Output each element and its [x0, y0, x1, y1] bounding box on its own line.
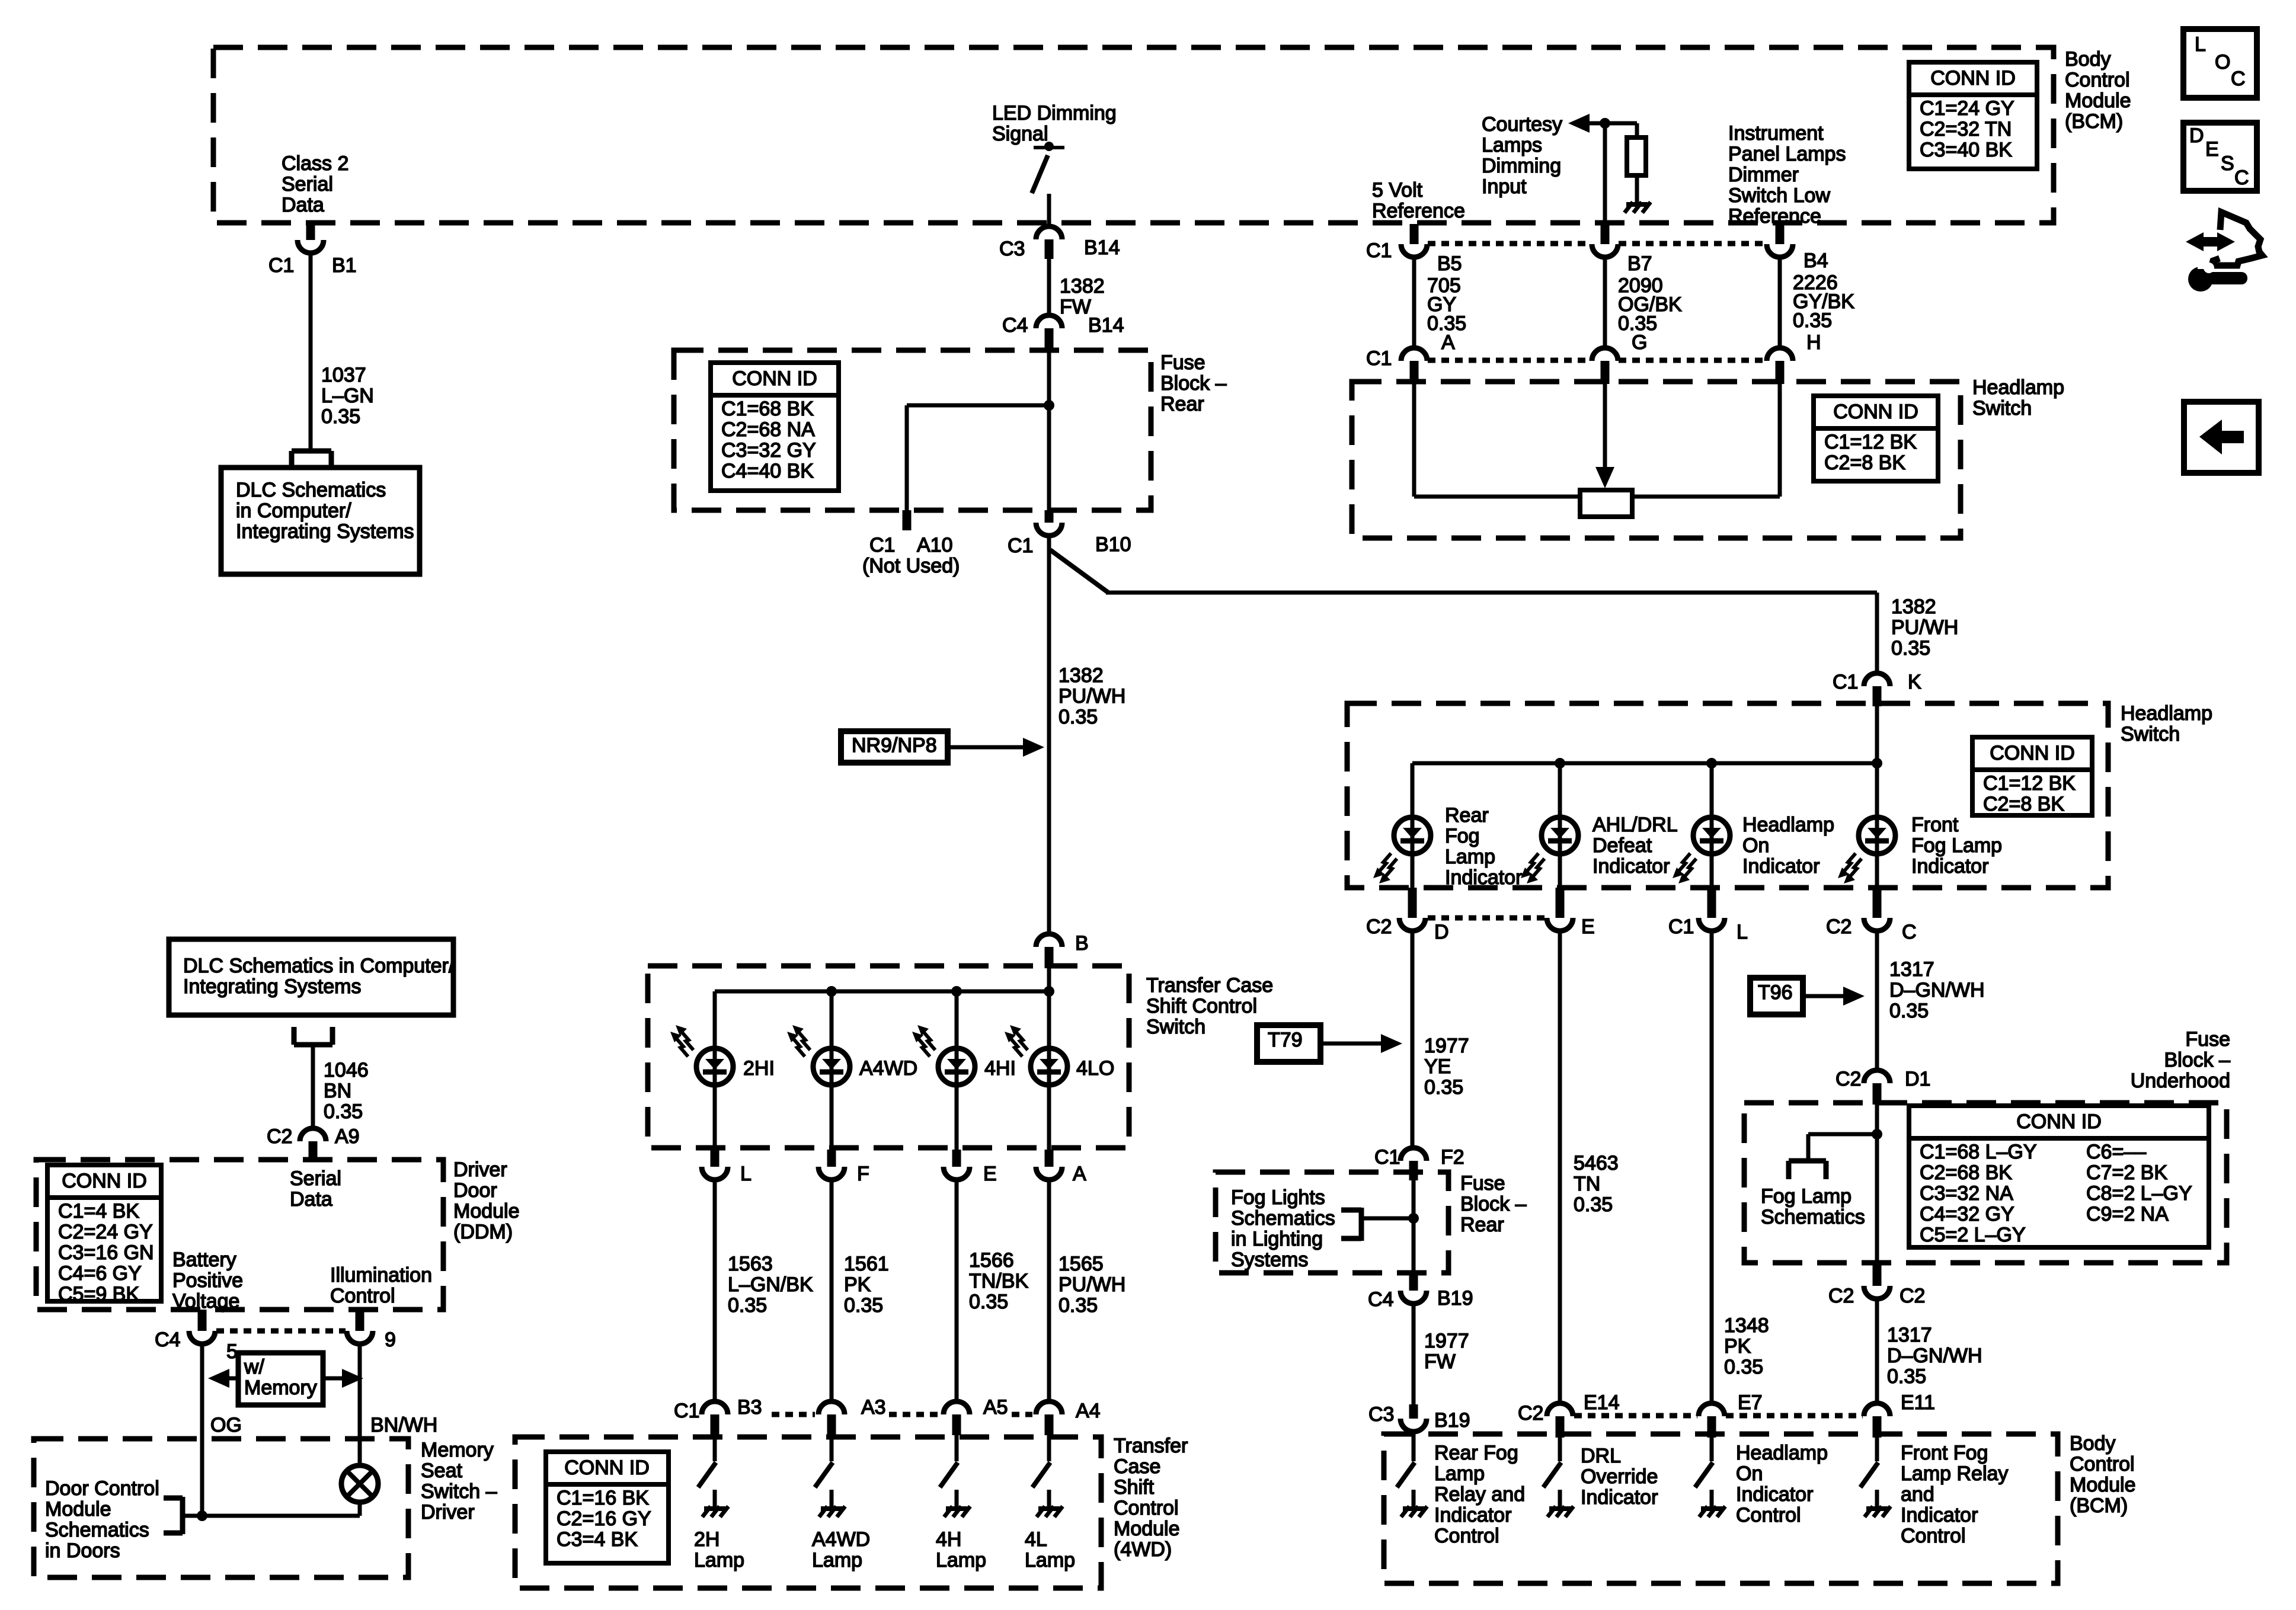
LED front fog lamp indicator [1859, 817, 1895, 854]
connector C1 pin B1 (BCM class 2 serial data) [306, 224, 315, 240]
svg-text:C1: C1 [1366, 239, 1392, 262]
connector C3 pin B19 (BCM) [1409, 1404, 1418, 1419]
connector pin A5 [944, 1401, 970, 1414]
svg-text:C2: C2 [1828, 1285, 1854, 1307]
svg-text:T79: T79 [1268, 1029, 1303, 1051]
svg-text:Input: Input [1482, 175, 1527, 198]
wire 1317 D-GN/WH lower [1875, 1300, 1879, 1403]
svg-text:C5=9 BK: C5=9 BK [58, 1283, 139, 1305]
DDM CONN ID table [47, 1165, 161, 1301]
svg-text:Lamp: Lamp [1445, 846, 1495, 868]
svg-text:Control: Control [1114, 1497, 1179, 1519]
arrow from T79 to wire [1320, 1042, 1384, 1046]
connector pin B7 (dimmer input) [1601, 224, 1610, 244]
inline connector dotted row (top) [1428, 241, 1591, 247]
arrow: courtesy lamps dimming input (points left) [1586, 121, 1637, 126]
svg-text:Control: Control [1434, 1525, 1499, 1547]
LED bus wire (transfer case) [715, 990, 1049, 994]
svg-text:Fog Lights: Fog Lights [1231, 1186, 1325, 1209]
svg-text:DLC Schematics in Computer/: DLC Schematics in Computer/ [183, 955, 455, 977]
connector pin H (headlamp switch) [1767, 348, 1793, 361]
Transfer Case Module CONN ID table [546, 1452, 669, 1563]
svg-text:B5: B5 [1437, 252, 1462, 275]
LED 4HI indicator [938, 1048, 975, 1085]
svg-text:PK: PK [844, 1273, 871, 1296]
svg-text:Dimmer: Dimmer [1728, 164, 1799, 186]
svg-text:B10: B10 [1095, 533, 1131, 556]
svg-text:1037: 1037 [321, 364, 366, 386]
takeout box T96 [1750, 978, 1803, 1014]
svg-text:NR9/NP8: NR9/NP8 [852, 734, 937, 757]
svg-text:Battery: Battery [172, 1249, 236, 1271]
svg-text:Indicator: Indicator [1581, 1486, 1658, 1509]
connector C2 pin E14 (BCM) [1547, 1403, 1573, 1416]
svg-text:Switch Low: Switch Low [1728, 184, 1830, 207]
svg-text:1348: 1348 [1724, 1314, 1769, 1337]
svg-text:A: A [1441, 331, 1455, 354]
svg-text:Switch: Switch [1146, 1016, 1205, 1038]
svg-text:C1=12 BK: C1=12 BK [1983, 772, 2076, 795]
connector C1 pin L [1707, 888, 1716, 918]
svg-text:0.35: 0.35 [1059, 1294, 1098, 1317]
svg-text:C2: C2 [1518, 1402, 1543, 1425]
arrow from NR9/NP8 to wire [948, 745, 1031, 750]
svg-text:A5: A5 [983, 1396, 1008, 1419]
svg-text:B: B [1075, 932, 1089, 955]
svg-text:1382: 1382 [1060, 275, 1105, 297]
svg-text:E7: E7 [1738, 1391, 1763, 1414]
w/ Memory option box [238, 1353, 323, 1405]
wire 1563 L-GN/BK 0.35 [713, 1180, 717, 1401]
svg-text:1382: 1382 [1059, 664, 1104, 687]
svg-text:w/: w/ [244, 1356, 265, 1378]
svg-text:Reference: Reference [1728, 205, 1821, 228]
svg-text:Driver: Driver [421, 1501, 475, 1523]
svg-text:CONN ID: CONN ID [1990, 742, 2075, 764]
svg-text:E14: E14 [1584, 1391, 1620, 1414]
bracket: door control module reference [180, 1497, 186, 1534]
svg-text:C4=32 GY: C4=32 GY [1920, 1203, 2014, 1225]
svg-text:C4: C4 [1002, 314, 1028, 337]
svg-text:TN: TN [1574, 1173, 1600, 1195]
LED headlamp on indicator [1693, 817, 1730, 854]
svg-text:(4WD): (4WD) [1114, 1538, 1172, 1561]
Headlamp Switch dashed outline box (lower) [1347, 703, 2108, 888]
svg-text:Control: Control [1736, 1504, 1801, 1526]
dotted row between pins D and E [1428, 916, 1547, 921]
svg-text:E11: E11 [1901, 1391, 1935, 1414]
wire: headlamp on 1348 PK full drop [1710, 932, 1714, 1403]
bracket: DLC schematics reference (top) [292, 449, 331, 454]
svg-text:Defeat: Defeat [1593, 834, 1652, 857]
svg-text:A4: A4 [1076, 1400, 1101, 1422]
svg-text:Block –: Block – [1460, 1193, 1527, 1215]
connector C1 pin B5 (5V ref, BCM exit) [1410, 224, 1419, 244]
wire 705 GY 0.35 [1412, 257, 1416, 348]
svg-text:DLC Schematics: DLC Schematics [236, 479, 386, 501]
svg-text:Signal: Signal [992, 123, 1048, 145]
junction node OG/door control [197, 1510, 207, 1521]
junction node to fog lights schematics [1408, 1213, 1419, 1224]
LED 2HI indicator [696, 1048, 733, 1085]
svg-text:C: C [2231, 68, 2246, 90]
svg-text:C4: C4 [1368, 1288, 1393, 1311]
LED 4LO indicator [1031, 1048, 1067, 1085]
svg-text:Indicator: Indicator [1742, 855, 1819, 878]
svg-text:0.35: 0.35 [844, 1294, 883, 1317]
svg-text:C: C [1902, 921, 1917, 943]
svg-text:Case: Case [1114, 1455, 1160, 1478]
svg-text:C2: C2 [1900, 1285, 1925, 1307]
wire: indicator drop x=2632 [1558, 763, 1562, 889]
icon: back arrow box [2184, 402, 2259, 473]
connector pin 9 (DDM bottom) [356, 1310, 364, 1331]
svg-text:E: E [2205, 138, 2219, 161]
svg-text:C3=32 GY: C3=32 GY [721, 439, 816, 462]
svg-text:C2=8 BK: C2=8 BK [1983, 793, 2064, 815]
svg-text:Indicator: Indicator [1911, 855, 1988, 878]
svg-text:in Computer/: in Computer/ [236, 500, 351, 522]
svg-text:Module: Module [1114, 1518, 1180, 1540]
svg-text:C9=2 NA: C9=2 NA [2086, 1203, 2169, 1225]
svg-text:(BCM): (BCM) [2070, 1494, 2128, 1517]
svg-text:K: K [1908, 671, 1921, 693]
svg-text:Module: Module [2065, 89, 2131, 112]
Fuse Block - Rear dashed outline box [674, 350, 1151, 510]
dotted row between pins 5 and 9 [216, 1329, 346, 1334]
svg-text:Shift: Shift [1114, 1476, 1155, 1499]
svg-text:Switch: Switch [2121, 723, 2180, 745]
svg-text:4HI: 4HI [984, 1057, 1016, 1080]
svg-text:Lamp Relay: Lamp Relay [1901, 1462, 2008, 1485]
connector pin E7 (BCM) [1699, 1403, 1725, 1416]
connector pin B (transfer case shift control switch) [1036, 934, 1062, 947]
svg-text:Lamp: Lamp [936, 1549, 986, 1571]
dotted row between pins E14/E7/E11 [1574, 1413, 1697, 1419]
svg-text:A10: A10 [917, 534, 953, 556]
svg-text:C1=24 GY: C1=24 GY [1920, 97, 2014, 120]
svg-text:Module: Module [45, 1498, 111, 1521]
svg-text:0.35: 0.35 [969, 1291, 1008, 1313]
svg-text:L–GN/BK: L–GN/BK [728, 1273, 813, 1296]
connector pin A3 [818, 1401, 845, 1414]
svg-text:Block –: Block – [2164, 1049, 2231, 1071]
svg-text:Serial: Serial [290, 1167, 341, 1190]
svg-text:in Doors: in Doors [45, 1539, 120, 1562]
BCM CONN ID table [1909, 62, 2037, 169]
wire 1566 TN/BK 0.35 [955, 1180, 959, 1401]
svg-text:BN: BN [324, 1080, 351, 1102]
svg-text:Systems: Systems [1231, 1249, 1308, 1271]
LED A4WD indicator [813, 1048, 850, 1085]
svg-text:Control: Control [1901, 1525, 1966, 1547]
svg-text:in Lighting: in Lighting [1231, 1228, 1323, 1250]
wire: branch to fog lamp schematics bracket [1808, 1132, 1877, 1137]
svg-text:AHL/DRL: AHL/DRL [1593, 814, 1678, 836]
Memory Seat Switch dashed outline box [34, 1439, 408, 1577]
svg-text:A: A [1073, 1163, 1086, 1185]
svg-text:Integrating Systems: Integrating Systems [236, 520, 414, 543]
svg-text:Switch: Switch [1972, 397, 2032, 420]
wire: K down to indicator bus [1875, 706, 1879, 763]
svg-text:Fog Lamp: Fog Lamp [1911, 834, 2002, 857]
svg-text:Indicator: Indicator [1593, 855, 1670, 878]
wire 1565 PU/WH 0.35 [1047, 1180, 1051, 1401]
svg-text:Schematics: Schematics [1761, 1206, 1865, 1228]
ground: headlamp on indicator control [1710, 1490, 1714, 1506]
svg-text:Integrating Systems: Integrating Systems [183, 975, 361, 998]
svg-text:FW: FW [1060, 296, 1091, 318]
svg-text:A9: A9 [335, 1125, 360, 1148]
svg-text:C4=40 BK: C4=40 BK [721, 460, 814, 482]
switch: A4WD lamp driver [830, 1435, 834, 1461]
svg-text:1566: 1566 [969, 1249, 1014, 1272]
bracket: fog lights schematics reference [1359, 1208, 1364, 1241]
svg-text:Data: Data [282, 194, 324, 216]
svg-text:1977: 1977 [1424, 1330, 1469, 1352]
connector pin B4 (low reference) [1776, 224, 1785, 244]
svg-text:1977: 1977 [1424, 1035, 1469, 1057]
svg-text:CONN ID: CONN ID [1833, 401, 1918, 423]
svg-text:TN/BK: TN/BK [969, 1270, 1028, 1292]
svg-text:Lamp: Lamp [812, 1549, 862, 1571]
wire: inside fuse block, vertical main [1047, 352, 1051, 510]
svg-text:H: H [1806, 331, 1821, 354]
svg-text:Transfer Case: Transfer Case [1146, 974, 1273, 997]
svg-text:0.35: 0.35 [1059, 706, 1098, 728]
wire: through fuse block underhood [1875, 1105, 1879, 1263]
svg-text:Panel Lamps: Panel Lamps [1728, 143, 1846, 165]
svg-text:C1=12 BK: C1=12 BK [1824, 431, 1917, 453]
svg-text:C2: C2 [267, 1125, 292, 1148]
svg-text:B3: B3 [737, 1396, 762, 1419]
svg-text:LED Dimming: LED Dimming [992, 102, 1117, 124]
svg-text:Lamps: Lamps [1482, 134, 1542, 156]
Fuse Block Rear CONN ID table [711, 363, 839, 491]
connector C4 pin B14 (Fuse Block Rear top) [1036, 315, 1062, 328]
svg-text:C1=68 L–GY: C1=68 L–GY [1920, 1141, 2037, 1163]
svg-text:L: L [2195, 33, 2206, 56]
switch SW1 LED dimming signal (inside BCM) [1044, 142, 1054, 151]
svg-text:C3: C3 [1368, 1403, 1394, 1426]
icon: pointing hand with double arrow and wrench [2195, 237, 2226, 247]
svg-text:C1: C1 [1374, 1146, 1400, 1169]
svg-text:Lamp: Lamp [694, 1549, 744, 1571]
wire: indicator drop x=3167 [1875, 763, 1879, 889]
svg-text:C2=68 BK: C2=68 BK [1920, 1161, 2012, 1184]
svg-text:PK: PK [1724, 1335, 1751, 1358]
svg-text:Schematics: Schematics [45, 1519, 149, 1541]
svg-text:Fog Lamp: Fog Lamp [1761, 1185, 1851, 1208]
connector pin A [1045, 1150, 1054, 1167]
svg-text:C3=4 BK: C3=4 BK [557, 1528, 638, 1551]
dotted row between pins B3/A3/A5/A4 [772, 1412, 815, 1417]
wire: branch drop to C1 K [1875, 593, 1879, 673]
svg-text:T96: T96 [1758, 981, 1793, 1004]
svg-text:Rear Fog: Rear Fog [1434, 1442, 1518, 1464]
arrow from T96 to wire [1803, 994, 1846, 998]
svg-text:4H: 4H [936, 1528, 961, 1551]
Fuse Block Underhood CONN ID table [1909, 1106, 2209, 1247]
svg-text:Control: Control [2070, 1453, 2135, 1475]
lamp: memory seat switch illumination [341, 1465, 378, 1502]
wire: rear fog indicator control 1977 YE [1411, 932, 1415, 1147]
svg-text:Rear: Rear [1160, 393, 1204, 415]
svg-text:E: E [1581, 916, 1595, 938]
bracket: DLC schematics reference (bottom) [294, 1042, 332, 1048]
svg-text:Override: Override [1581, 1465, 1658, 1488]
wire: low ref to potentiometer [1778, 384, 1782, 497]
svg-text:4L: 4L [1025, 1528, 1047, 1551]
svg-text:C: C [2234, 167, 2249, 189]
svg-text:C1: C1 [268, 254, 294, 277]
ground: 2H lamp driver [713, 1490, 717, 1506]
wire: diagonal branch from B10 to headlamp switch [1050, 550, 1108, 593]
svg-text:Rear: Rear [1445, 804, 1489, 827]
wire: LED drop x=1614 [955, 991, 959, 1150]
svg-text:C8=2 L–GY: C8=2 L–GY [2086, 1182, 2192, 1205]
svg-text:1046: 1046 [324, 1059, 369, 1081]
potentiometer RP1 (dimmer rheostat) [1580, 490, 1632, 517]
wire 2090 OG/BK 0.35 [1603, 257, 1607, 348]
svg-text:Control: Control [2065, 69, 2130, 91]
wire: indicator drop x=2888 [1710, 763, 1714, 889]
wire: 1382 PU/WH main vertical run [1047, 536, 1051, 934]
svg-text:C2=32 TN: C2=32 TN [1920, 118, 2012, 140]
wire: dimmer input down from junction [1603, 123, 1607, 225]
svg-text:B19: B19 [1437, 1287, 1473, 1310]
wire: LED drop x=1403 [830, 991, 834, 1150]
svg-text:C1: C1 [674, 1400, 699, 1422]
svg-text:Headlamp: Headlamp [1972, 376, 2064, 399]
wire: branch to fog lights schematics bracket [1361, 1217, 1414, 1221]
svg-text:C2: C2 [1826, 916, 1851, 938]
svg-text:0.35: 0.35 [324, 1100, 363, 1123]
svg-text:0.35: 0.35 [1887, 1365, 1926, 1388]
svg-text:C4=6 GY: C4=6 GY [58, 1262, 142, 1285]
svg-text:B1: B1 [332, 254, 357, 277]
svg-text:Reference: Reference [1372, 200, 1465, 222]
svg-text:Relay and: Relay and [1434, 1483, 1525, 1506]
wire 1037 L-GN 0.35 [309, 253, 313, 451]
svg-text:Dimming: Dimming [1482, 155, 1561, 177]
svg-text:D–GN/WH: D–GN/WH [1887, 1345, 1982, 1367]
svg-text:F: F [857, 1163, 869, 1185]
svg-text:A3: A3 [861, 1396, 886, 1419]
Transfer Case Shift Control Module dashed outline box [515, 1437, 1101, 1588]
svg-text:C1: C1 [1008, 534, 1033, 557]
ground G1 (inside BCM) [1626, 202, 1648, 207]
svg-text:C2=24 GY: C2=24 GY [58, 1221, 153, 1243]
takeout box T79 [1257, 1025, 1320, 1062]
svg-text:Indicator: Indicator [1434, 1504, 1511, 1526]
switch: 2H lamp driver [713, 1435, 717, 1461]
svg-text:5 Volt: 5 Volt [1372, 179, 1423, 201]
svg-text:Door Control: Door Control [45, 1477, 159, 1500]
connector C1 pin B3 (transfer case module) [702, 1401, 728, 1414]
junction nodes on bus [1555, 758, 1565, 769]
svg-text:Front: Front [1911, 814, 1959, 836]
svg-text:Class 2: Class 2 [282, 152, 348, 175]
wire: 1382 FW vertical segment [1047, 259, 1051, 315]
svg-text:Door: Door [453, 1179, 497, 1202]
svg-text:D: D [1434, 921, 1449, 943]
connector pin L (transfer case switch bottom) [711, 1150, 720, 1167]
svg-text:C1: C1 [1833, 671, 1858, 693]
svg-text:C3: C3 [999, 238, 1025, 260]
wire 1977 FW [1412, 1304, 1416, 1411]
svg-text:1565: 1565 [1059, 1253, 1104, 1275]
svg-text:OG: OG [210, 1414, 242, 1436]
svg-text:Fuse: Fuse [2185, 1028, 2230, 1051]
svg-text:0.35: 0.35 [321, 405, 360, 428]
indicator bus wire [1412, 761, 1877, 766]
svg-text:CONN ID: CONN ID [62, 1170, 147, 1192]
connector C1 pin B10 (Fuse Block Rear bottom) [1045, 510, 1054, 523]
svg-text:(BCM): (BCM) [2065, 110, 2123, 133]
svg-text:Illumination: Illumination [330, 1264, 432, 1286]
svg-text:On: On [1742, 834, 1769, 857]
svg-text:Module: Module [453, 1200, 520, 1222]
svg-text:1563: 1563 [728, 1253, 773, 1275]
switch: rear fog lamp relay and indicator control [1412, 1436, 1416, 1461]
switch: front fog lamp relay and indicator control [1875, 1436, 1879, 1461]
svg-text:4LO: 4LO [1076, 1057, 1114, 1080]
svg-text:0.35: 0.35 [1891, 637, 1930, 660]
svg-text:L: L [1737, 921, 1748, 943]
svg-text:Body: Body [2070, 1432, 2116, 1455]
svg-text:Fuse: Fuse [1160, 351, 1205, 374]
wire: indicator drop x=2383 [1411, 763, 1415, 889]
svg-text:Courtesy: Courtesy [1482, 113, 1562, 136]
svg-text:C5=2 L–GY: C5=2 L–GY [1920, 1224, 2026, 1246]
connector C2 pin D1 (fuse block underhood) [1864, 1070, 1890, 1083]
svg-text:C1=16 BK: C1=16 BK [557, 1487, 649, 1509]
Transfer Case Shift Control Switch dashed outline box [648, 966, 1129, 1148]
wire: branch to A10 not used [907, 404, 1049, 408]
svg-text:Headlamp: Headlamp [1736, 1442, 1828, 1464]
junction node to fog lamp schematics [1872, 1129, 1882, 1140]
svg-text:Seat: Seat [421, 1459, 462, 1482]
BCM (Body Control Module) dashed outline box, top [213, 47, 2054, 223]
svg-text:C2=8 BK: C2=8 BK [1824, 452, 1905, 474]
svg-text:0.35: 0.35 [1724, 1356, 1763, 1378]
svg-text:9: 9 [385, 1329, 396, 1351]
Headlamp Switch CONN ID table (upper) [1814, 396, 1938, 481]
connector C2 pin A9 (DDM) [300, 1128, 326, 1141]
svg-text:YE: YE [1424, 1055, 1451, 1078]
connector pin F [827, 1150, 836, 1167]
icon: wrench [2188, 267, 2213, 292]
svg-text:DRL: DRL [1581, 1445, 1621, 1467]
svg-text:Indicator: Indicator [1445, 866, 1522, 889]
svg-text:1382: 1382 [1891, 596, 1936, 618]
svg-text:B4: B4 [1803, 249, 1828, 272]
connector C1 pin A (headlamp switch) [1401, 348, 1427, 361]
DLC Schematics box (computer/integrating systems) [169, 939, 453, 1015]
svg-text:Rear: Rear [1460, 1214, 1504, 1236]
svg-text:E: E [983, 1163, 997, 1185]
bracket: fog lamp schematics reference [1789, 1158, 1826, 1164]
svg-text:CONN ID: CONN ID [564, 1457, 650, 1479]
svg-text:PU/WH: PU/WH [1891, 616, 1958, 639]
svg-text:B14: B14 [1084, 236, 1120, 259]
svg-text:Control: Control [330, 1285, 395, 1307]
switch: headlamp on indicator control [1710, 1436, 1714, 1461]
wire: AHL/DRL 5463 TN full drop [1558, 932, 1562, 1403]
svg-text:C7=2 BK: C7=2 BK [2086, 1161, 2167, 1184]
svg-text:CONN ID: CONN ID [1930, 67, 2016, 89]
